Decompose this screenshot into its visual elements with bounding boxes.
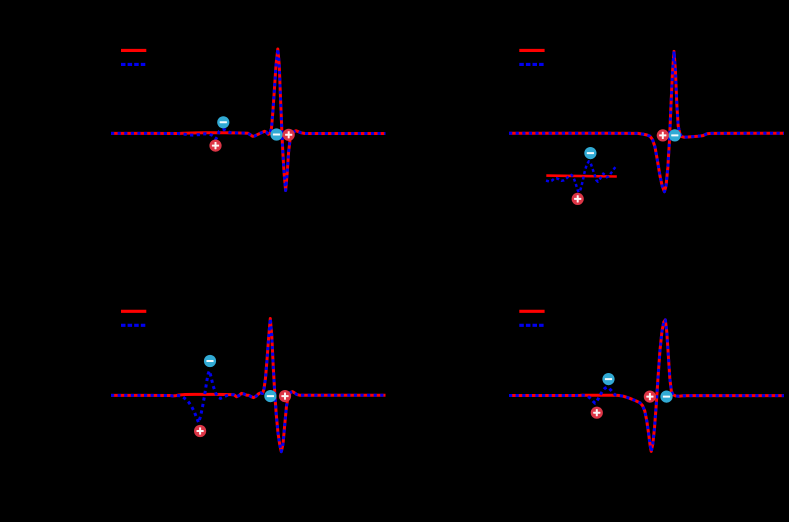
plus (positive charge) marker [283,129,295,141]
plus (positive charge) marker [572,193,584,205]
plus (positive charge) marker [279,390,291,402]
minus (negative charge) marker [217,116,229,128]
BL red solid curve [111,319,386,452]
legend red solid sample [519,49,544,52]
minus (negative charge) marker [270,128,282,140]
plus (positive charge) marker [209,140,221,152]
legend red solid sample [519,310,544,313]
plus (positive charge) marker [194,425,206,437]
legend red solid sample [121,49,146,52]
minus (negative charge) marker [204,355,216,367]
TR inset blue noisy dashed curve [546,161,617,192]
minus (negative charge) marker [264,390,276,402]
legend blue dashed sample [121,63,146,66]
legend red solid sample [121,310,146,313]
plus (positive charge) marker [644,391,656,403]
TL blue dashed curve [111,49,386,191]
TL red solid curve [111,49,386,191]
plus (positive charge) marker [657,129,669,141]
minus (negative charge) marker [669,129,681,141]
TR blue dashed curve [509,51,784,191]
BL blue dashed curve [111,319,386,452]
legend blue dashed sample [121,324,146,327]
legend blue dashed sample [519,324,544,327]
minus (negative charge) marker [602,373,614,385]
TR inset red line [546,174,617,177]
BR blue dashed curve [509,320,784,452]
plus (positive charge) marker [591,407,603,419]
TR red solid curve [509,51,784,191]
minus (negative charge) marker [584,147,596,159]
BR red solid curve [509,320,784,452]
legend blue dashed sample [519,63,544,66]
minus (negative charge) marker [660,391,672,403]
